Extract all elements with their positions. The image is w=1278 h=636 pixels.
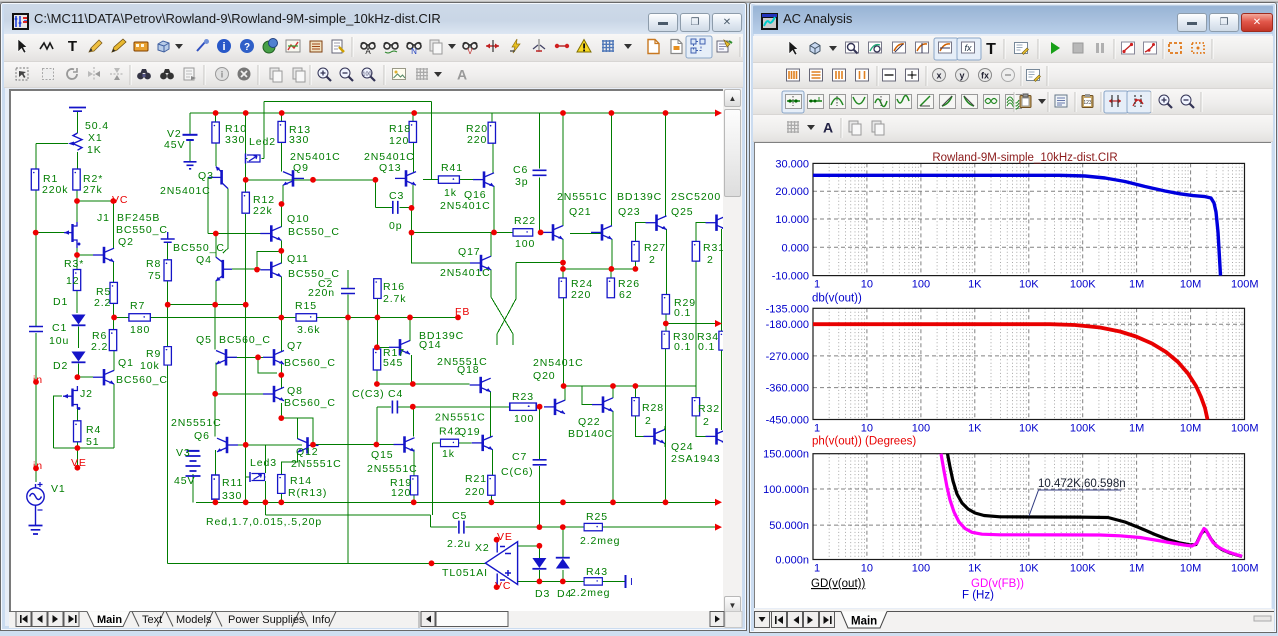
svg-text:F (Hz): F (Hz) bbox=[962, 590, 994, 602]
svg-text:db(v(out)): db(v(out)) bbox=[812, 293, 862, 305]
svg-text:3.6k: 3.6k bbox=[297, 324, 320, 336]
svg-text:2: 2 bbox=[649, 254, 656, 266]
svg-text:-10.000: -10.000 bbox=[772, 271, 809, 283]
svg-text:2.7k: 2.7k bbox=[383, 293, 406, 305]
svg-text:100: 100 bbox=[515, 238, 535, 250]
svg-text:R25: R25 bbox=[586, 511, 608, 523]
svg-text:Q4: Q4 bbox=[196, 254, 212, 266]
svg-text:X2: X2 bbox=[475, 542, 490, 554]
svg-text:?: ? bbox=[244, 42, 250, 53]
svg-text:1K: 1K bbox=[968, 563, 982, 575]
svg-text:C1: C1 bbox=[52, 322, 67, 334]
svg-text:Q3: Q3 bbox=[198, 170, 214, 182]
svg-text:100.000n: 100.000n bbox=[763, 484, 809, 496]
svg-text:2N5551C: 2N5551C bbox=[435, 412, 486, 424]
svg-text:Main: Main bbox=[851, 616, 877, 628]
svg-text:2N5401C: 2N5401C bbox=[440, 200, 491, 212]
svg-text:C3: C3 bbox=[389, 190, 404, 202]
svg-text:50.4: 50.4 bbox=[85, 120, 109, 132]
svg-text:A: A bbox=[365, 47, 371, 56]
svg-text:1: 1 bbox=[814, 563, 820, 575]
svg-text:10: 10 bbox=[861, 563, 873, 575]
svg-text:3p: 3p bbox=[515, 176, 528, 188]
svg-text:10.472K,60.598n: 10.472K,60.598n bbox=[1038, 478, 1126, 490]
svg-text:150.000n: 150.000n bbox=[763, 449, 809, 461]
svg-text:Q2: Q2 bbox=[118, 236, 134, 248]
svg-text:1: 1 bbox=[814, 279, 820, 291]
svg-text:I: I bbox=[630, 576, 634, 588]
svg-text:100: 100 bbox=[912, 423, 930, 435]
svg-text:Q19: Q19 bbox=[458, 426, 481, 438]
svg-text:2: 2 bbox=[645, 415, 652, 427]
svg-text:220: 220 bbox=[571, 289, 591, 301]
svg-text:220: 220 bbox=[465, 486, 485, 498]
svg-text:Q21: Q21 bbox=[569, 206, 592, 218]
svg-text:62: 62 bbox=[619, 289, 632, 301]
svg-text:2N5401C: 2N5401C bbox=[160, 185, 211, 197]
svg-text:100: 100 bbox=[912, 563, 930, 575]
svg-text:2N5551C: 2N5551C bbox=[291, 458, 342, 470]
svg-text:0.1: 0.1 bbox=[674, 307, 691, 319]
svg-text:330: 330 bbox=[222, 490, 242, 502]
svg-text:fx: fx bbox=[964, 43, 972, 53]
svg-text:1K: 1K bbox=[968, 279, 982, 291]
svg-text:2: 2 bbox=[703, 416, 710, 428]
svg-text:R7: R7 bbox=[130, 300, 145, 312]
svg-text:100M: 100M bbox=[1231, 423, 1259, 435]
svg-text:R18: R18 bbox=[389, 123, 411, 135]
svg-text:1k: 1k bbox=[442, 448, 455, 460]
svg-text:120: 120 bbox=[389, 135, 409, 147]
svg-text:-360.000: -360.000 bbox=[766, 383, 809, 395]
svg-text:10K: 10K bbox=[1019, 423, 1039, 435]
svg-text:10K: 10K bbox=[1019, 563, 1039, 575]
svg-text:100K: 100K bbox=[1070, 563, 1096, 575]
svg-text:R32: R32 bbox=[698, 403, 720, 415]
svg-text:BC560_C: BC560_C bbox=[284, 397, 336, 409]
svg-text:330: 330 bbox=[289, 134, 309, 146]
svg-text:Q24: Q24 bbox=[671, 441, 694, 453]
svg-text:BC550_C: BC550_C bbox=[116, 224, 168, 236]
svg-text:R11: R11 bbox=[222, 477, 243, 489]
svg-text:Q10: Q10 bbox=[287, 213, 310, 225]
svg-text:D2: D2 bbox=[53, 360, 68, 372]
svg-text:Q5: Q5 bbox=[196, 334, 212, 346]
svg-text:220n: 220n bbox=[308, 287, 335, 299]
svg-text:fx: fx bbox=[981, 71, 989, 81]
svg-text:Models: Models bbox=[176, 614, 212, 626]
svg-text:-135.000: -135.000 bbox=[766, 303, 809, 315]
svg-text:-270.000: -270.000 bbox=[766, 351, 809, 363]
svg-text:R23: R23 bbox=[512, 391, 534, 403]
svg-text:51: 51 bbox=[86, 436, 99, 448]
svg-text:20.000: 20.000 bbox=[775, 186, 809, 198]
svg-text:-450.000: -450.000 bbox=[766, 415, 809, 427]
svg-text:-180.000: -180.000 bbox=[766, 319, 809, 331]
svg-text:1: 1 bbox=[814, 423, 820, 435]
svg-text:C(C6): C(C6) bbox=[501, 466, 534, 478]
svg-text:2.2: 2.2 bbox=[94, 297, 111, 309]
svg-text:1k: 1k bbox=[444, 187, 457, 199]
svg-text:2.2meg: 2.2meg bbox=[570, 587, 610, 599]
svg-text:Text: Text bbox=[142, 614, 162, 626]
svg-text:BD139C: BD139C bbox=[617, 191, 662, 203]
svg-text:100: 100 bbox=[514, 413, 534, 425]
svg-text:10K: 10K bbox=[1019, 279, 1039, 291]
svg-text:2N5551C: 2N5551C bbox=[367, 463, 418, 475]
svg-text:27k: 27k bbox=[83, 184, 103, 196]
svg-text:R15: R15 bbox=[295, 300, 317, 312]
svg-text:BC550_C: BC550_C bbox=[173, 242, 225, 254]
svg-text:100M: 100M bbox=[1231, 279, 1259, 291]
svg-text:10M: 10M bbox=[1180, 423, 1201, 435]
svg-text:R16: R16 bbox=[383, 281, 405, 293]
svg-text:C5: C5 bbox=[452, 510, 467, 522]
svg-text:0.1: 0.1 bbox=[698, 341, 715, 353]
svg-text:R9: R9 bbox=[146, 348, 161, 360]
svg-text:Led3: Led3 bbox=[250, 457, 277, 469]
svg-text:N: N bbox=[411, 47, 417, 56]
svg-text:Q13: Q13 bbox=[379, 162, 402, 174]
svg-text:1K: 1K bbox=[87, 144, 102, 156]
svg-text:2.2meg: 2.2meg bbox=[580, 535, 620, 547]
svg-text:12: 12 bbox=[66, 275, 79, 287]
svg-text:V3: V3 bbox=[176, 447, 191, 459]
svg-text:R28: R28 bbox=[642, 402, 664, 414]
svg-text:10M: 10M bbox=[1180, 279, 1201, 291]
svg-text:1M: 1M bbox=[1129, 423, 1144, 435]
svg-text:Q18: Q18 bbox=[457, 364, 480, 376]
svg-text:Led2: Led2 bbox=[249, 136, 276, 148]
svg-text:Info: Info bbox=[312, 614, 330, 626]
svg-text:0.000n: 0.000n bbox=[775, 555, 809, 567]
svg-text:2N5551C: 2N5551C bbox=[557, 191, 608, 203]
svg-text:Rowland-9M-simple_10kHz-dist.C: Rowland-9M-simple_10kHz-dist.CIR bbox=[932, 152, 1117, 164]
svg-text:10: 10 bbox=[861, 423, 873, 435]
svg-text:180: 180 bbox=[130, 324, 150, 336]
svg-text:2.2u: 2.2u bbox=[447, 538, 471, 550]
svg-text:10M: 10M bbox=[1180, 563, 1201, 575]
svg-text:R(R13): R(R13) bbox=[288, 487, 327, 499]
svg-text:R4: R4 bbox=[86, 424, 101, 436]
svg-text:BC560_C: BC560_C bbox=[219, 334, 271, 346]
svg-text:X1: X1 bbox=[88, 132, 103, 144]
svg-text:V1: V1 bbox=[51, 483, 66, 495]
svg-text:Q14: Q14 bbox=[419, 339, 442, 351]
svg-text:45V: 45V bbox=[164, 139, 185, 151]
svg-text:50.000n: 50.000n bbox=[769, 520, 809, 532]
svg-text:A: A bbox=[823, 120, 833, 136]
svg-text:Q17: Q17 bbox=[458, 246, 481, 258]
svg-text:100K: 100K bbox=[1070, 279, 1096, 291]
svg-text:R27: R27 bbox=[644, 242, 666, 254]
svg-text:GD(v(FB)): GD(v(FB)) bbox=[971, 578, 1024, 590]
svg-text:120: 120 bbox=[391, 487, 411, 499]
svg-text:R22: R22 bbox=[514, 215, 536, 227]
svg-text:Q7: Q7 bbox=[287, 340, 303, 352]
svg-text:Red,1.7,0.015,.5,20p: Red,1.7,0.015,.5,20p bbox=[206, 516, 322, 528]
svg-text:220k: 220k bbox=[42, 184, 68, 196]
svg-text:Q25: Q25 bbox=[671, 206, 694, 218]
svg-text:VE: VE bbox=[497, 531, 513, 543]
svg-text:Q9: Q9 bbox=[293, 162, 309, 174]
svg-text:330: 330 bbox=[225, 134, 245, 146]
svg-text:BC560_C: BC560_C bbox=[284, 357, 336, 369]
svg-text:Q15: Q15 bbox=[371, 449, 394, 461]
svg-text:Q22: Q22 bbox=[578, 416, 601, 428]
svg-text:Q1: Q1 bbox=[118, 357, 134, 369]
svg-text:BF245B: BF245B bbox=[117, 212, 160, 224]
svg-text:T: T bbox=[986, 41, 996, 58]
svg-text:1M: 1M bbox=[1129, 563, 1144, 575]
svg-text:C7: C7 bbox=[512, 451, 527, 463]
svg-text:10k: 10k bbox=[140, 360, 160, 372]
svg-text:30.000: 30.000 bbox=[775, 158, 809, 170]
svg-text:C6: C6 bbox=[513, 164, 528, 176]
svg-text:BC560_C: BC560_C bbox=[116, 374, 168, 386]
svg-text:2: 2 bbox=[707, 254, 714, 266]
svg-text:1K: 1K bbox=[968, 423, 982, 435]
svg-text:R31: R31 bbox=[703, 242, 725, 254]
svg-text:0.000: 0.000 bbox=[781, 242, 809, 254]
svg-text:C4: C4 bbox=[388, 388, 403, 400]
svg-text:i: i bbox=[221, 70, 224, 80]
svg-text:Q12: Q12 bbox=[296, 446, 319, 458]
svg-text:V: V bbox=[467, 47, 473, 56]
svg-text:0p: 0p bbox=[389, 220, 402, 232]
svg-text:2N5401C: 2N5401C bbox=[533, 357, 584, 369]
svg-text:1M: 1M bbox=[1129, 279, 1144, 291]
svg-text:BC550_C: BC550_C bbox=[288, 226, 340, 238]
svg-text:R21: R21 bbox=[465, 473, 487, 485]
svg-text:123: 123 bbox=[1083, 100, 1092, 106]
svg-text:100: 100 bbox=[912, 279, 930, 291]
svg-text:J2: J2 bbox=[80, 388, 93, 400]
svg-text:y: y bbox=[959, 71, 964, 81]
svg-text:R43: R43 bbox=[586, 566, 608, 578]
svg-text:i: i bbox=[222, 41, 225, 53]
svg-text:2SA1943: 2SA1943 bbox=[671, 453, 721, 465]
svg-text:D3: D3 bbox=[535, 588, 550, 600]
svg-text:R3*: R3* bbox=[64, 258, 84, 270]
svg-text:ph(v(out)) (Degrees): ph(v(out)) (Degrees) bbox=[812, 436, 916, 448]
svg-text:Q20: Q20 bbox=[533, 370, 556, 382]
svg-text:100K: 100K bbox=[1070, 423, 1096, 435]
svg-text:100: 100 bbox=[362, 72, 371, 78]
svg-text:T: T bbox=[68, 38, 77, 55]
svg-text:2N5551C: 2N5551C bbox=[171, 417, 222, 429]
svg-text:GD(v(out)): GD(v(out)) bbox=[811, 578, 865, 590]
svg-text:2SC5200: 2SC5200 bbox=[671, 191, 721, 203]
svg-text:22k: 22k bbox=[253, 205, 273, 217]
svg-text:45V: 45V bbox=[174, 475, 195, 487]
svg-text:BD140C: BD140C bbox=[568, 428, 613, 440]
svg-text:0.1: 0.1 bbox=[674, 341, 691, 353]
svg-text:220: 220 bbox=[467, 134, 487, 146]
svg-text:A: A bbox=[457, 67, 467, 83]
svg-text:R41: R41 bbox=[441, 162, 463, 174]
svg-text:Power Supplies: Power Supplies bbox=[228, 614, 305, 626]
svg-text:TL051AI: TL051AI bbox=[442, 567, 488, 579]
svg-text:10: 10 bbox=[861, 279, 873, 291]
svg-text:10.000: 10.000 bbox=[775, 214, 809, 226]
svg-text:2.2: 2.2 bbox=[91, 341, 108, 353]
svg-text:75: 75 bbox=[148, 270, 161, 282]
svg-text:Main: Main bbox=[97, 614, 122, 626]
svg-text:Q8: Q8 bbox=[287, 385, 303, 397]
svg-text:J1: J1 bbox=[97, 212, 110, 224]
svg-text:2N5401C: 2N5401C bbox=[440, 267, 491, 279]
svg-text:R14: R14 bbox=[290, 475, 312, 487]
svg-text:545: 545 bbox=[383, 357, 403, 369]
svg-text:D1: D1 bbox=[53, 296, 68, 308]
svg-text:Q11: Q11 bbox=[287, 253, 309, 265]
svg-text:x: x bbox=[936, 71, 941, 81]
svg-text:Q6: Q6 bbox=[194, 430, 210, 442]
svg-text:10u: 10u bbox=[49, 335, 69, 347]
svg-text:Q23: Q23 bbox=[618, 206, 641, 218]
svg-text:C(C3): C(C3) bbox=[352, 388, 385, 400]
svg-text:100M: 100M bbox=[1231, 563, 1259, 575]
svg-text:R8: R8 bbox=[146, 258, 161, 270]
